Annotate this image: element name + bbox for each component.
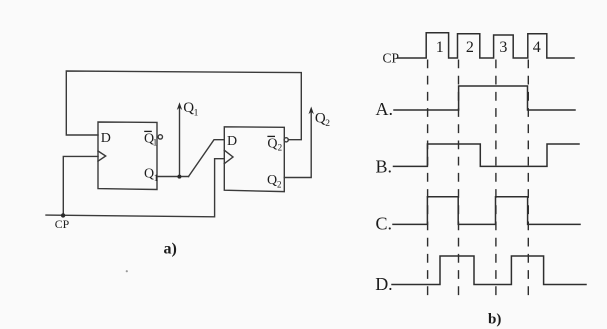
pin label Q1 of U1 xyxy=(144,167,158,184)
svg-text:1: 1 xyxy=(154,173,159,183)
Q1 arrowhead xyxy=(177,102,182,110)
node CP junction dot xyxy=(61,213,65,217)
svg-text:Q: Q xyxy=(144,167,154,182)
svg-text:D: D xyxy=(101,131,111,146)
timing mark dashed line 2 xyxy=(458,60,460,301)
svg-text:2: 2 xyxy=(278,142,283,152)
wire Q1 arrow up xyxy=(179,106,181,177)
pin label Q2 of U2 xyxy=(267,173,282,190)
svg-text:D: D xyxy=(227,134,237,149)
net label Q1 at arrow xyxy=(183,100,198,118)
svg-text:2: 2 xyxy=(277,180,282,190)
flip-flop U1 box xyxy=(98,122,157,190)
pin label Q2bar of U2 xyxy=(267,136,282,152)
svg-text:Q: Q xyxy=(183,100,194,116)
svg-text:b): b) xyxy=(488,311,501,327)
flip-flop U2 box xyxy=(224,127,284,192)
Q2 arrowhead xyxy=(309,107,314,115)
waveform B xyxy=(394,144,580,166)
svg-text:1: 1 xyxy=(436,39,444,56)
flip-flop U1 clock triangle xyxy=(98,151,106,161)
wire Q1 diagonal to U2 D input xyxy=(189,140,225,177)
timing mark dashed line 4 xyxy=(527,60,529,299)
scan speck xyxy=(126,270,128,272)
U1 inverted output bubble xyxy=(158,135,162,139)
svg-text:C.: C. xyxy=(376,214,393,234)
svg-text:Q: Q xyxy=(267,137,277,152)
svg-text:2: 2 xyxy=(325,119,330,129)
svg-text:a): a) xyxy=(164,241,177,258)
wire Q1 output xyxy=(157,176,189,178)
svg-text:Q: Q xyxy=(267,173,277,188)
svg-text:A.: A. xyxy=(376,99,394,119)
wire CP bottom rail to U2 clock xyxy=(46,159,224,217)
svg-text:B.: B. xyxy=(376,156,393,176)
flip-flop U2 clock triangle xyxy=(224,150,233,163)
svg-text:1: 1 xyxy=(194,108,199,118)
waveform D xyxy=(392,256,586,285)
wire Q2 output to arrow xyxy=(284,111,311,178)
U2 inverted output bubble xyxy=(284,138,288,142)
wire feedback Q2bar to U1 D input xyxy=(66,71,301,140)
svg-text:Q: Q xyxy=(315,110,326,126)
timing mark dashed line 1 xyxy=(427,60,429,299)
waveform C xyxy=(393,197,580,225)
node Q1 junction dot xyxy=(177,175,181,179)
net label Q2 at arrow xyxy=(315,110,330,128)
timing diagram xyxy=(392,33,586,285)
svg-text:D.: D. xyxy=(375,274,393,294)
svg-text:1: 1 xyxy=(153,137,158,147)
svg-text:CP: CP xyxy=(383,51,400,66)
svg-text:CP: CP xyxy=(55,217,70,231)
pin label Q1bar of U1 xyxy=(144,131,157,147)
svg-text:3: 3 xyxy=(499,39,507,56)
timing mark dashed line 3 xyxy=(495,60,497,299)
waveform CP xyxy=(398,33,575,58)
wire CP to U1 clock xyxy=(63,156,98,215)
waveform A xyxy=(394,86,575,110)
svg-text:2: 2 xyxy=(466,39,474,56)
svg-text:4: 4 xyxy=(533,39,541,56)
